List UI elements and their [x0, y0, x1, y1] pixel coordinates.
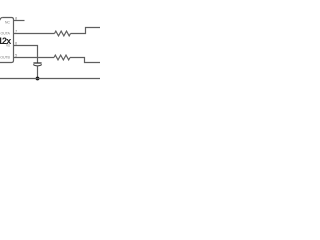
ground rail wire (bottom horizontal): [0, 78, 100, 80]
U1 notch (top-center semicircle, right half visible): [0, 18, 3, 21]
wire pin5 to R2: [14, 57, 55, 59]
wire pin7 to R1: [14, 33, 55, 35]
svg-text:6: 6: [15, 40, 18, 45]
svg-text:OUTA: OUTA: [1, 32, 11, 36]
svg-text:NC: NC: [5, 21, 10, 25]
svg-text:OUTB: OUTB: [0, 56, 10, 60]
capacitor C1 curved bottom plate: [33, 65, 42, 66]
svg-text:5: 5: [15, 52, 18, 57]
svg-text:Vs: Vs: [6, 44, 10, 48]
wire pin6 Vs to capacitor: [14, 46, 38, 63]
wire R2 to right edge (steps down): [70, 58, 100, 63]
junction dot: [36, 77, 40, 81]
resistor R1: [55, 31, 71, 36]
svg-text:7: 7: [15, 28, 18, 33]
svg-text:8: 8: [15, 15, 18, 20]
resistor R2: [54, 55, 70, 60]
wire capacitor to ground rail: [37, 66, 39, 78]
wire R1 to right edge (steps up): [71, 28, 101, 34]
capacitor C1 top plate: [33, 62, 41, 64]
op-amp U1 (DIP-8 body, left half cut off at image edge): [0, 18, 14, 63]
wire pin8 NC stub: [14, 20, 25, 22]
